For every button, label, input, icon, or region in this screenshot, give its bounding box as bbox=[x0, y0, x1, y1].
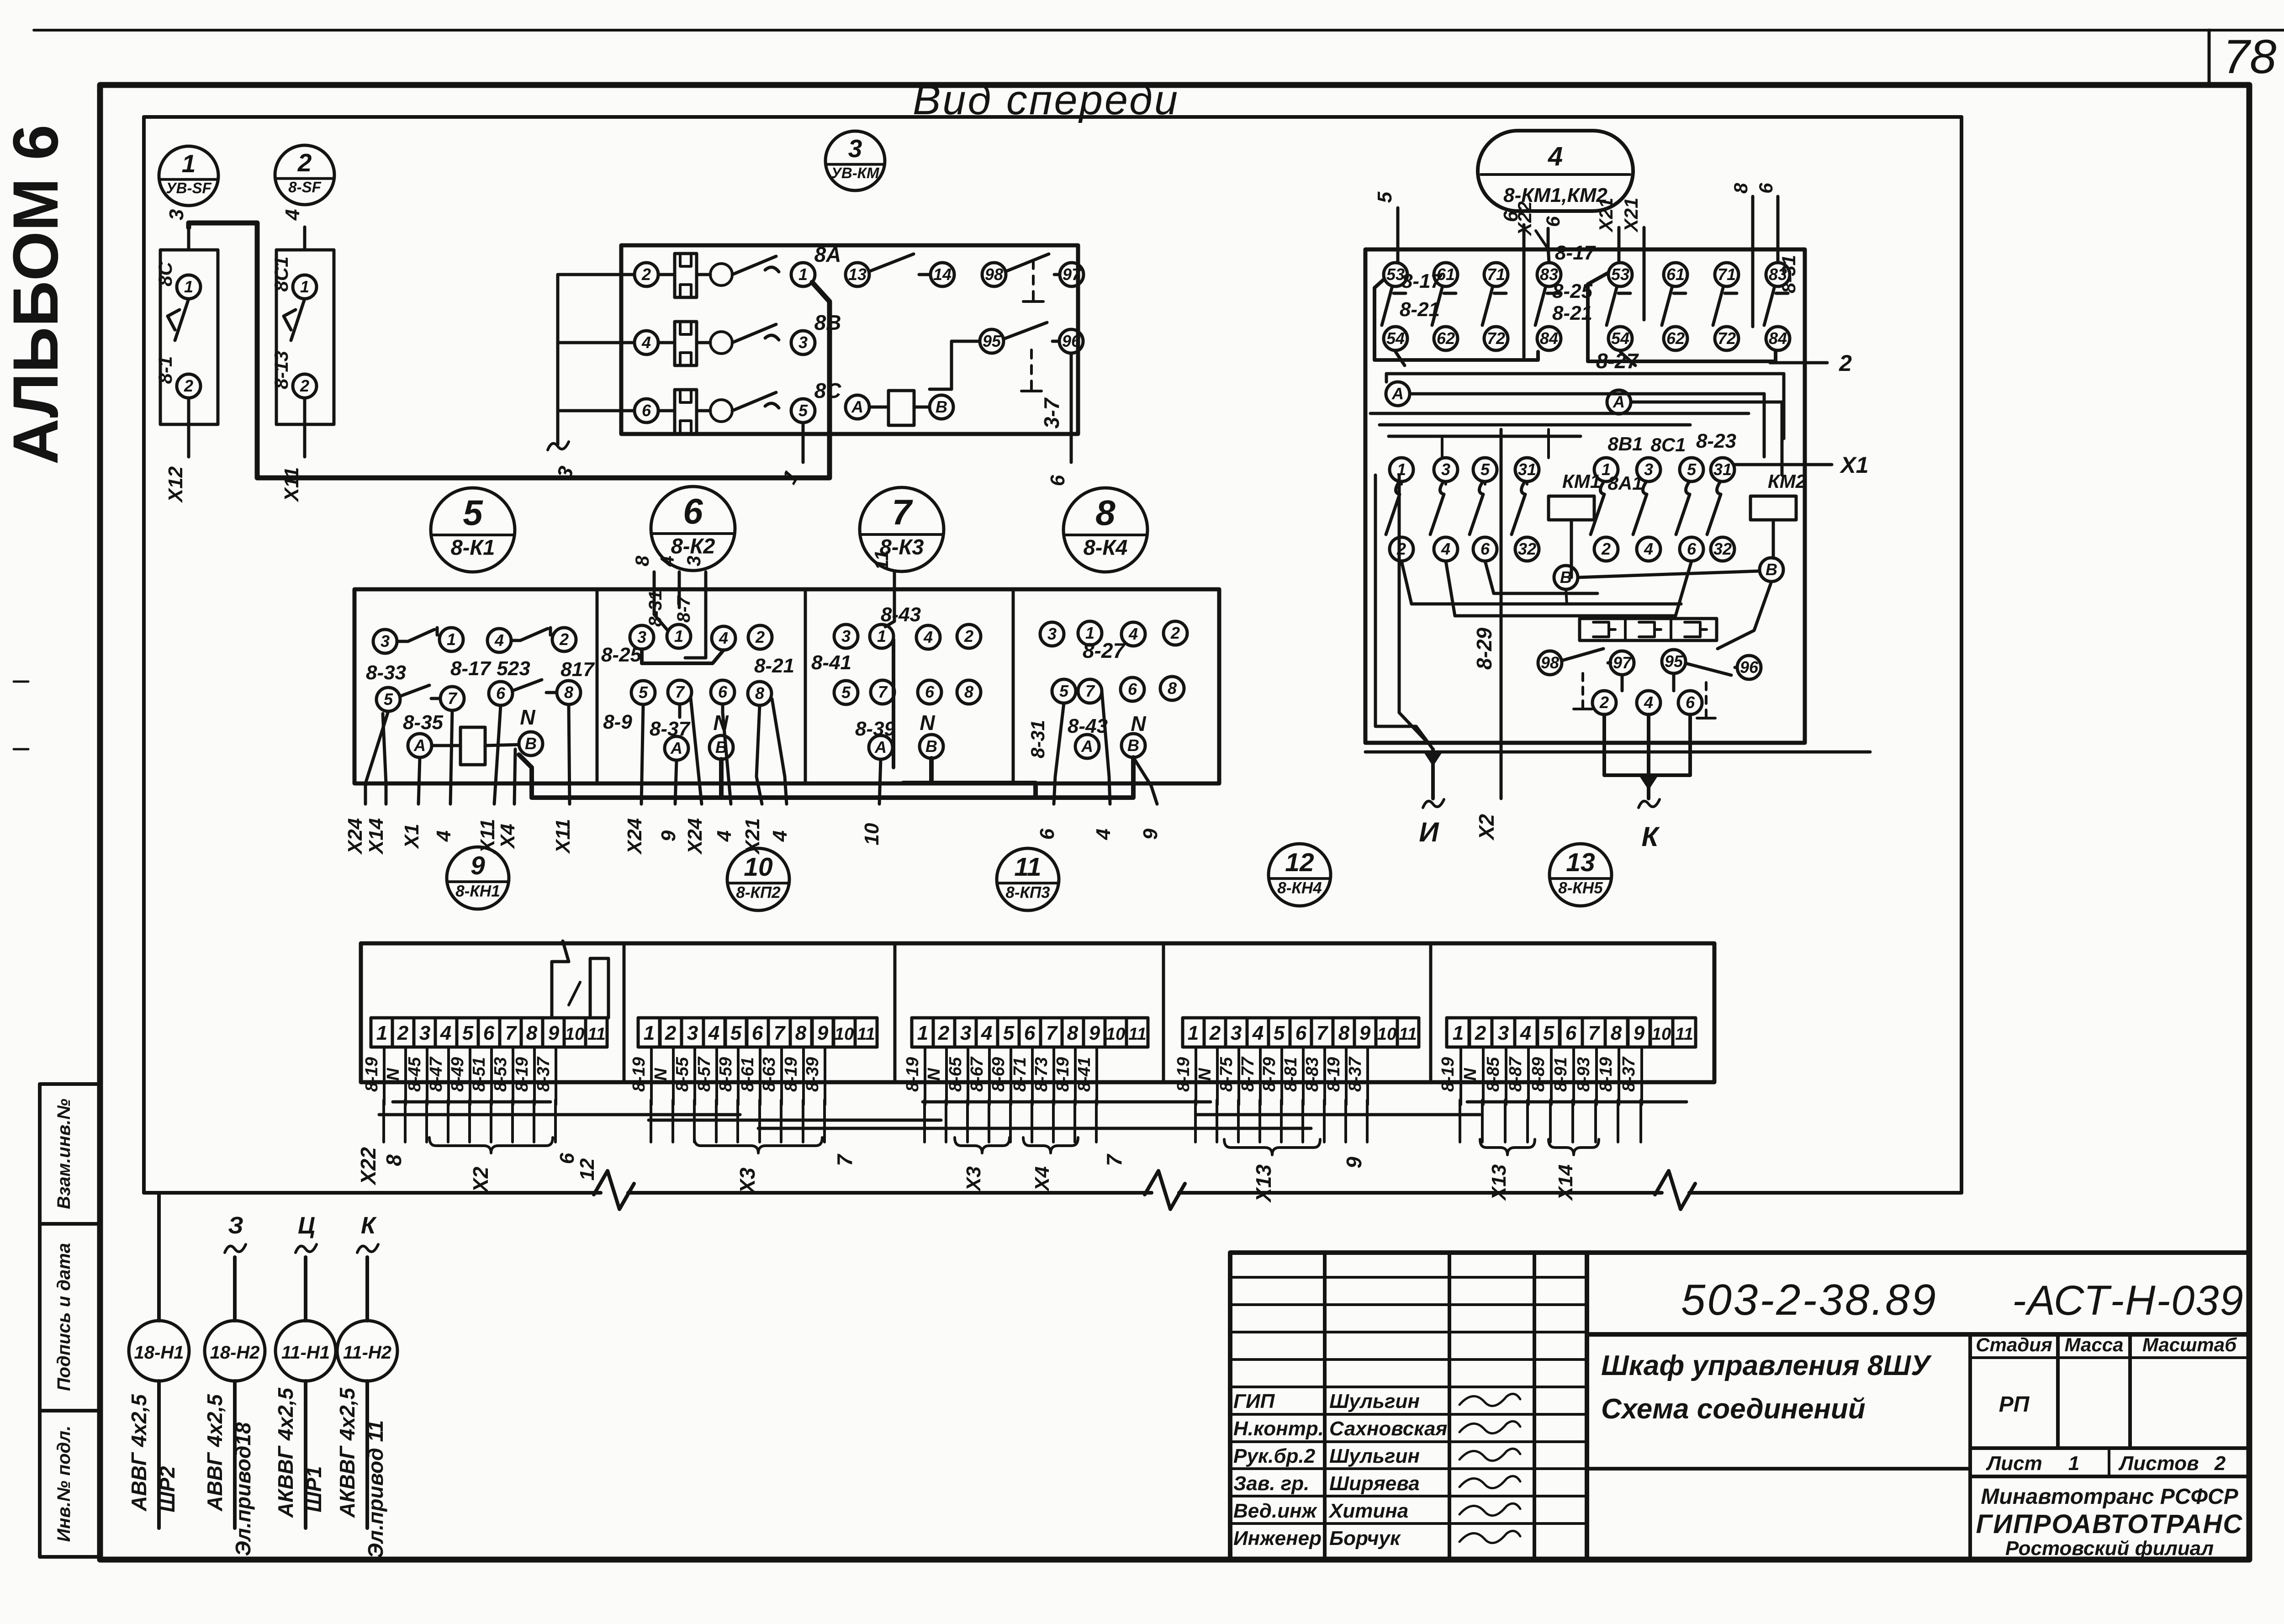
wire to connector Х12 bbox=[187, 398, 190, 457]
svg-text:8: 8 bbox=[964, 682, 973, 701]
svg-text:4: 4 bbox=[1548, 142, 1563, 171]
KM2 pole 31-32 bbox=[1711, 458, 1734, 481]
pin circle 1 bbox=[791, 263, 815, 286]
KM1 coil bbox=[1549, 496, 1594, 520]
cabinet outline box top bbox=[144, 115, 1961, 119]
svg-text:523: 523 bbox=[497, 657, 530, 680]
svg-text:72: 72 bbox=[1718, 329, 1736, 348]
svg-text:8-83: 8-83 bbox=[1303, 1057, 1322, 1092]
relay 8-K4 coil A-B bbox=[1075, 735, 1099, 758]
svg-text:8-37: 8-37 bbox=[534, 1056, 553, 1092]
svg-text:И: И bbox=[1419, 817, 1439, 847]
svg-text:Х21: Х21 bbox=[1595, 198, 1617, 233]
svg-text:2: 2 bbox=[1475, 1022, 1486, 1044]
wire X2 down bbox=[1500, 429, 1503, 799]
svg-text:4: 4 bbox=[1520, 1022, 1531, 1044]
badge 6 8-K2 bbox=[651, 487, 735, 571]
svg-text:Стадия: Стадия bbox=[1976, 1334, 2052, 1355]
svg-text:АВВГ 4х2,5: АВВГ 4х2,5 bbox=[203, 1394, 227, 1512]
svg-text:8: 8 bbox=[1067, 1022, 1079, 1044]
svg-text:8-61: 8-61 bbox=[738, 1057, 757, 1092]
svg-text:Сахновская: Сахновская bbox=[1329, 1418, 1448, 1440]
svg-text:3-7: 3-7 bbox=[1040, 397, 1063, 428]
svg-text:9: 9 bbox=[1089, 1022, 1100, 1044]
svg-text:8-КП2: 8-КП2 bbox=[736, 883, 781, 901]
svg-text:6: 6 bbox=[1024, 1022, 1036, 1044]
svg-text:95: 95 bbox=[983, 332, 1001, 350]
svg-text:8-27: 8-27 bbox=[1596, 349, 1639, 373]
svg-text:8-19: 8-19 bbox=[782, 1057, 801, 1092]
pin circle 1 bbox=[177, 275, 201, 299]
breaker contact blade bbox=[732, 392, 779, 411]
svg-text:УВ-SF: УВ-SF bbox=[166, 180, 211, 196]
bus B1-B2 bbox=[1578, 571, 1760, 577]
svg-text:3: 3 bbox=[960, 1022, 971, 1044]
terminal strip 5 cells 1-11 bbox=[1447, 1018, 1470, 1047]
cable 11-Н2 lower wire with marking bbox=[365, 1381, 369, 1528]
svg-text:5: 5 bbox=[1480, 460, 1490, 479]
svg-text:1: 1 bbox=[1453, 1022, 1464, 1044]
KM2 pole 3-4 bbox=[1637, 458, 1660, 481]
svg-text:В: В bbox=[936, 397, 947, 416]
strip divider 2 bbox=[40, 1409, 100, 1412]
svg-text:КМ1: КМ1 bbox=[1562, 471, 1601, 492]
relay 8-K4 pins 3,1,4,2 bbox=[1040, 622, 1064, 646]
svg-text:8А1: 8А1 bbox=[1607, 472, 1643, 494]
thick jumper B7 bus bbox=[931, 758, 1036, 798]
pole row 8А: pin 2 bbox=[634, 263, 658, 286]
wire to net 2 bbox=[1770, 361, 1827, 365]
svg-text:N: N bbox=[1461, 1068, 1480, 1081]
svg-text:3: 3 bbox=[683, 555, 704, 566]
relay 8-K3 pins 5,7,6,8 bbox=[834, 681, 858, 704]
svg-text:8-1: 8-1 bbox=[154, 356, 176, 384]
contact 98-97 bbox=[1538, 651, 1562, 675]
relay 8-K1 pins 5,7 bbox=[376, 688, 400, 711]
terminal A1 of KM1 bbox=[1386, 382, 1410, 406]
KM1 pole 5-6 bbox=[1473, 458, 1497, 481]
svg-text:8-87: 8-87 bbox=[1506, 1056, 1525, 1092]
svg-text:817: 817 bbox=[560, 658, 595, 681]
svg-text:8-13: 8-13 bbox=[270, 351, 292, 389]
relay 8-K3 pins 3,1,4,2 bbox=[834, 624, 858, 648]
svg-text:3: 3 bbox=[419, 1022, 430, 1044]
svg-text:8-53: 8-53 bbox=[491, 1057, 510, 1092]
stamp outer box bbox=[1230, 1253, 2249, 1560]
svg-text:8С: 8С bbox=[154, 261, 176, 286]
svg-text:8-КН1: 8-КН1 bbox=[455, 882, 500, 900]
terminal band divider 3 bbox=[1162, 943, 1165, 1082]
terminal B2 bbox=[1760, 558, 1783, 582]
svg-text:10: 10 bbox=[1377, 1025, 1396, 1044]
svg-text:Рук.бр.2: Рук.бр.2 bbox=[1233, 1445, 1316, 1467]
svg-text:2: 2 bbox=[755, 628, 765, 646]
svg-text:2: 2 bbox=[1209, 1022, 1221, 1044]
svg-text:А: А bbox=[413, 736, 426, 755]
svg-text:6: 6 bbox=[1687, 540, 1697, 558]
svg-text:Вед.инж: Вед.инж bbox=[1233, 1500, 1318, 1522]
svg-text:N: N bbox=[384, 1068, 403, 1081]
svg-text:8-19: 8-19 bbox=[1053, 1057, 1073, 1092]
svg-text:N: N bbox=[1195, 1068, 1215, 1081]
document margin strip box bbox=[40, 1084, 100, 1557]
inner wire from pin1 down bbox=[892, 640, 895, 767]
feeder bus wire left of block 3 bbox=[558, 275, 634, 444]
svg-text:2: 2 bbox=[184, 376, 193, 395]
svg-text:8-25: 8-25 bbox=[601, 644, 642, 666]
svg-text:8-25: 8-25 bbox=[1552, 280, 1593, 302]
svg-text:96: 96 bbox=[1062, 332, 1081, 350]
svg-text:96: 96 bbox=[1740, 658, 1759, 677]
svg-text:Х13: Х13 bbox=[1252, 1164, 1275, 1203]
relay 8-K2 pins 5,7,6,8 bbox=[631, 681, 655, 704]
switch blade bbox=[168, 299, 189, 340]
svg-text:Листов: Листов bbox=[2118, 1452, 2199, 1475]
badge 3 UV-KM bbox=[825, 131, 885, 190]
svg-text:Х21: Х21 bbox=[741, 818, 764, 855]
svg-text:Х1: Х1 bbox=[1839, 452, 1868, 478]
svg-text:Х22: Х22 bbox=[1514, 201, 1535, 237]
terminal strip 3 lead wires bbox=[924, 1047, 926, 1105]
svg-text:6: 6 bbox=[925, 682, 935, 701]
svg-text:Зав. гр.: Зав. гр. bbox=[1233, 1472, 1309, 1495]
svg-text:7: 7 bbox=[448, 689, 458, 708]
overload release circle bbox=[710, 264, 732, 286]
svg-text:54: 54 bbox=[1611, 329, 1629, 348]
fuse 8А bbox=[675, 254, 697, 297]
svg-text:6: 6 bbox=[483, 1022, 495, 1044]
svg-text:8-69: 8-69 bbox=[989, 1057, 1008, 1092]
svg-text:5: 5 bbox=[1543, 1022, 1554, 1044]
svg-text:11: 11 bbox=[1014, 852, 1041, 882]
svg-text:6: 6 bbox=[1480, 540, 1490, 558]
svg-text:В: В bbox=[1560, 568, 1572, 587]
svg-text:4: 4 bbox=[981, 1022, 992, 1044]
svg-text:3: 3 bbox=[848, 134, 862, 163]
svg-text:Х22: Х22 bbox=[356, 1147, 380, 1186]
svg-text:Минавтотранс РСФСР: Минавтотранс РСФСР bbox=[1981, 1485, 2238, 1509]
svg-text:8-39: 8-39 bbox=[803, 1057, 822, 1092]
svg-text:N: N bbox=[925, 1068, 944, 1081]
wires from nets 8 4 3 into relay 8-K2 bbox=[653, 572, 656, 589]
terminal strip 3 cells 1-11 bbox=[912, 1018, 933, 1047]
svg-text:8: 8 bbox=[1095, 492, 1116, 533]
svg-text:6: 6 bbox=[642, 401, 651, 420]
svg-text:8-47: 8-47 bbox=[427, 1056, 446, 1092]
svg-text:Шкаф управления 8ШУ: Шкаф управления 8ШУ bbox=[1601, 1350, 1932, 1381]
svg-text:5: 5 bbox=[1687, 460, 1697, 479]
svg-text:8-19: 8-19 bbox=[1597, 1057, 1616, 1092]
svg-text:1: 1 bbox=[644, 1022, 655, 1044]
svg-text:4: 4 bbox=[281, 209, 304, 221]
relay 8-K3 coil A-B bbox=[869, 735, 893, 759]
wire loop group1 54..84 bbox=[1375, 280, 1538, 360]
KM1 pole 3-4 bbox=[1434, 458, 1458, 481]
svg-text:2: 2 bbox=[1599, 693, 1609, 712]
svg-text:А: А bbox=[1081, 737, 1093, 756]
svg-text:В: В bbox=[525, 734, 537, 753]
svg-text:8-21: 8-21 bbox=[1552, 302, 1592, 324]
svg-text:8-SF: 8-SF bbox=[288, 179, 321, 196]
svg-text:Х24: Х24 bbox=[344, 818, 366, 855]
svg-text:8-7: 8-7 bbox=[674, 595, 694, 623]
wire to connector X1 bbox=[1734, 463, 1832, 466]
relay 8-K1 pins 3,1 bbox=[373, 629, 397, 653]
svg-text:2: 2 bbox=[300, 376, 309, 395]
svg-text:10: 10 bbox=[835, 1025, 854, 1044]
wire nest below contactor bbox=[1401, 561, 1681, 604]
svg-text:2: 2 bbox=[1170, 624, 1180, 642]
svg-text:71: 71 bbox=[1487, 265, 1505, 284]
svg-text:5: 5 bbox=[1274, 1022, 1285, 1044]
relay band divider 1 bbox=[596, 589, 599, 783]
overload release circle bbox=[710, 400, 732, 422]
svg-text:Х2: Х2 bbox=[469, 1166, 492, 1194]
svg-text:5: 5 bbox=[463, 492, 483, 533]
svg-text:1: 1 bbox=[674, 627, 683, 645]
badge 13 8-KN5 bbox=[1549, 844, 1612, 906]
aux contact 71-72 column bbox=[1715, 263, 1739, 286]
svg-text:Шульгин: Шульгин bbox=[1329, 1390, 1420, 1412]
aux contact 53-54 column bbox=[1384, 263, 1407, 286]
pole row 8С: pin 6 bbox=[634, 399, 658, 423]
cabinet outline right bbox=[1960, 117, 1963, 1193]
svg-text:98: 98 bbox=[985, 265, 1003, 284]
pin circle 1 bbox=[293, 275, 317, 299]
block 3 outline box bbox=[621, 245, 1078, 434]
svg-text:7: 7 bbox=[774, 1022, 786, 1044]
svg-text:Х3: Х3 bbox=[962, 1166, 985, 1192]
svg-text:8-85: 8-85 bbox=[1484, 1057, 1503, 1092]
svg-text:Х11: Х11 bbox=[552, 819, 574, 854]
svg-text:8-63: 8-63 bbox=[760, 1057, 779, 1092]
cable circle 11-Н2 bbox=[337, 1321, 397, 1381]
svg-text:5: 5 bbox=[1003, 1022, 1015, 1044]
svg-text:8: 8 bbox=[564, 683, 573, 702]
overload release circle bbox=[710, 332, 732, 354]
svg-text:АЛЬБОМ 6: АЛЬБОМ 6 bbox=[0, 125, 71, 465]
svg-text:95: 95 bbox=[1665, 652, 1683, 671]
svg-text:Х2: Х2 bbox=[1475, 814, 1498, 841]
svg-text:11: 11 bbox=[1399, 1025, 1417, 1044]
svg-text:10: 10 bbox=[744, 852, 773, 882]
svg-text:1: 1 bbox=[300, 277, 309, 296]
svg-text:N: N bbox=[1131, 712, 1146, 735]
svg-text:7: 7 bbox=[1046, 1022, 1058, 1044]
svg-text:3: 3 bbox=[1441, 460, 1450, 479]
incoming wires X21 X21 bbox=[1618, 227, 1621, 263]
wire to terminal 4 bbox=[303, 227, 307, 250]
cable 18-Н2 lower wire with marking bbox=[233, 1381, 237, 1528]
pin circle 2 bbox=[293, 374, 317, 398]
svg-text:5: 5 bbox=[1059, 682, 1069, 700]
svg-text:8-71: 8-71 bbox=[1010, 1057, 1030, 1092]
KM1 pole 1-2 bbox=[1390, 458, 1413, 481]
svg-text:6: 6 bbox=[496, 684, 506, 703]
svg-text:5: 5 bbox=[841, 683, 851, 702]
badge 1 UV-SF bbox=[159, 146, 218, 206]
svg-text:71: 71 bbox=[1718, 265, 1736, 284]
svg-text:Х21: Х21 bbox=[1620, 198, 1642, 233]
svg-text:Инженер: Инженер bbox=[1233, 1527, 1322, 1550]
terminal strip 4 lead wires bbox=[1195, 1047, 1197, 1105]
svg-text:А: А bbox=[1391, 384, 1404, 403]
svg-text:АКВВГ 4х2,5: АКВВГ 4х2,5 bbox=[274, 1387, 297, 1518]
svg-text:Эл.привод 11: Эл.привод 11 bbox=[364, 1420, 387, 1558]
svg-text:12: 12 bbox=[1285, 848, 1314, 877]
svg-text:Лист: Лист bbox=[1986, 1452, 2042, 1475]
svg-text:2: 2 bbox=[2214, 1452, 2226, 1475]
terminal strip 4 cells 1-11 bbox=[1183, 1018, 1204, 1047]
svg-text:В: В bbox=[1766, 560, 1777, 579]
svg-text:8-К2: 8-К2 bbox=[671, 534, 715, 558]
svg-text:8В1: 8В1 bbox=[1607, 433, 1643, 455]
svg-text:7: 7 bbox=[1316, 1022, 1329, 1044]
svg-text:4: 4 bbox=[719, 629, 728, 647]
svg-text:Х24: Х24 bbox=[684, 818, 706, 855]
svg-text:5: 5 bbox=[730, 1022, 742, 1044]
svg-text:8-31: 8-31 bbox=[1778, 255, 1799, 293]
svg-text:4: 4 bbox=[656, 555, 678, 566]
svg-text:8: 8 bbox=[1168, 679, 1177, 698]
svg-text:4: 4 bbox=[713, 831, 735, 842]
svg-text:4: 4 bbox=[1644, 540, 1653, 558]
terminal band divider 1 bbox=[623, 943, 626, 1082]
svg-text:3: 3 bbox=[381, 632, 390, 651]
KM2 pole 5-6 bbox=[1680, 458, 1703, 481]
KM1 pole 31-32 bbox=[1515, 458, 1539, 481]
KM2 pole 1-2 bbox=[1594, 458, 1618, 481]
wire to connector Х11 bbox=[303, 398, 307, 457]
terminal B1 bbox=[1554, 566, 1578, 589]
wire pin to fuse bbox=[658, 341, 675, 344]
badge 7 8-K3 bbox=[860, 487, 944, 571]
thermal relay box bbox=[1580, 619, 1717, 640]
svg-text:4: 4 bbox=[641, 333, 651, 352]
aux contact 95-96 with latch bbox=[980, 329, 1004, 353]
relay band outline bbox=[354, 589, 1219, 783]
svg-text:6: 6 bbox=[1565, 1022, 1577, 1044]
page number box divider bbox=[2208, 30, 2211, 86]
wires to cable K bbox=[1604, 714, 1690, 775]
svg-text:10: 10 bbox=[1652, 1025, 1671, 1044]
svg-text:8С1: 8С1 bbox=[270, 256, 292, 291]
svg-text:8: 8 bbox=[1338, 1022, 1350, 1044]
svg-text:8-49: 8-49 bbox=[448, 1057, 467, 1092]
svg-text:11: 11 bbox=[871, 550, 892, 570]
svg-text:1: 1 bbox=[184, 277, 193, 296]
svg-text:АКВВГ 4х2,5: АКВВГ 4х2,5 bbox=[335, 1387, 359, 1518]
pin circle 5 bbox=[791, 399, 815, 423]
stamp right section verticals bbox=[1968, 1334, 1972, 1560]
strip3 braces X3 X4 bbox=[955, 1137, 1010, 1153]
cable circle 18-Н2 bbox=[205, 1321, 265, 1381]
relay 8-K2 coil A-B bbox=[665, 736, 688, 760]
aux contact 53-54 column bbox=[1608, 263, 1632, 286]
incoming wire net 6a bbox=[1523, 225, 1526, 357]
svg-text:3: 3 bbox=[1498, 1022, 1509, 1044]
svg-text:84: 84 bbox=[1769, 329, 1787, 348]
svg-text:8-33: 8-33 bbox=[366, 661, 406, 684]
svg-text:Масса: Масса bbox=[2065, 1334, 2124, 1355]
svg-text:11: 11 bbox=[1128, 1025, 1146, 1044]
svg-text:8: 8 bbox=[755, 684, 764, 703]
aux contact 83-84 column bbox=[1766, 263, 1790, 286]
svg-text:9: 9 bbox=[471, 851, 485, 880]
svg-text:8-37: 8-37 bbox=[1619, 1056, 1639, 1092]
wire pin to fuse bbox=[658, 409, 675, 413]
pins 2 4 6 bottom bbox=[1592, 691, 1616, 714]
svg-text:К: К bbox=[361, 1212, 377, 1239]
svg-text:1: 1 bbox=[376, 1022, 387, 1044]
svg-text:1: 1 bbox=[2068, 1452, 2079, 1475]
svg-text:18-Н1: 18-Н1 bbox=[134, 1343, 184, 1363]
aux contact 61-62 column bbox=[1664, 263, 1687, 286]
svg-text:РП: РП bbox=[1999, 1392, 2030, 1417]
svg-text:Подпись и дата: Подпись и дата bbox=[54, 1243, 74, 1391]
contact 95-96 bbox=[1662, 650, 1686, 673]
svg-text:З: З bbox=[228, 1212, 243, 1239]
svg-text:4: 4 bbox=[1128, 624, 1138, 643]
svg-text:97: 97 bbox=[1063, 265, 1082, 284]
thick bus under relay band bbox=[532, 757, 1133, 798]
cabinet outline bottom with break marks bbox=[144, 1191, 601, 1195]
svg-text:11-Н2: 11-Н2 bbox=[343, 1343, 391, 1363]
svg-text:Инв.№ подл.: Инв.№ подл. bbox=[54, 1426, 74, 1542]
svg-text:3: 3 bbox=[687, 1022, 698, 1044]
svg-text:Борчук: Борчук bbox=[1329, 1527, 1401, 1550]
svg-text:N: N bbox=[713, 711, 729, 735]
svg-text:13: 13 bbox=[848, 265, 867, 284]
left verticals merging to cable I bbox=[1375, 475, 1433, 749]
signatures squiggles bbox=[1459, 1394, 1520, 1406]
svg-text:2: 2 bbox=[559, 630, 569, 649]
svg-text:4: 4 bbox=[440, 1022, 451, 1044]
title area divider bbox=[1587, 1467, 1970, 1471]
svg-text:7: 7 bbox=[505, 1022, 518, 1044]
svg-text:8-17: 8-17 bbox=[1401, 270, 1443, 292]
strip4 brace X13 bbox=[1224, 1139, 1320, 1155]
svg-text:503-2-38.89: 503-2-38.89 bbox=[1681, 1275, 1938, 1324]
svg-text:8-57: 8-57 bbox=[695, 1056, 714, 1092]
svg-text:Х3: Х3 bbox=[735, 1167, 759, 1195]
svg-text:31: 31 bbox=[1713, 460, 1732, 479]
relay band divider 2 bbox=[804, 589, 807, 783]
terminal strip 1 lead wires bbox=[383, 1047, 386, 1105]
svg-text:54: 54 bbox=[1386, 329, 1405, 348]
svg-text:8-67: 8-67 bbox=[968, 1056, 987, 1092]
switch unit box at x=351 bbox=[160, 250, 218, 424]
wire loop group2 54..84 bbox=[1588, 273, 1776, 361]
bus wires between aux area and contactors bbox=[1386, 372, 1784, 376]
svg-text:8-65: 8-65 bbox=[946, 1057, 965, 1092]
svg-text:9: 9 bbox=[657, 830, 680, 841]
aux contact 61-62 column bbox=[1434, 263, 1458, 286]
svg-text:8-КН5: 8-КН5 bbox=[1558, 879, 1603, 897]
svg-text:8-19: 8-19 bbox=[513, 1057, 532, 1092]
svg-text:8-75: 8-75 bbox=[1217, 1057, 1236, 1092]
stamp left table verticals bbox=[1323, 1253, 1327, 1560]
svg-text:6: 6 bbox=[752, 1022, 763, 1044]
svg-text:6: 6 bbox=[1686, 693, 1695, 712]
svg-text:7: 7 bbox=[1085, 682, 1095, 700]
sheet top edge line bbox=[34, 29, 2284, 32]
svg-text:8-КН4: 8-КН4 bbox=[1277, 879, 1322, 897]
svg-text:62: 62 bbox=[1666, 329, 1685, 348]
svg-text:Х14: Х14 bbox=[1554, 1164, 1577, 1201]
svg-text:4: 4 bbox=[494, 631, 504, 650]
svg-text:А: А bbox=[874, 738, 887, 756]
